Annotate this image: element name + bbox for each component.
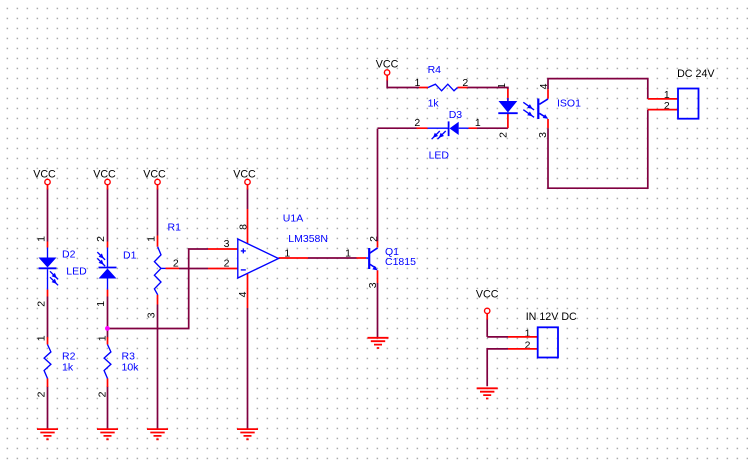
svg-text:D3: D3	[449, 109, 463, 121]
svg-text:1: 1	[36, 335, 48, 341]
svg-text:R1: R1	[168, 221, 182, 233]
svg-text:D1: D1	[123, 250, 137, 262]
svg-text:3: 3	[146, 312, 158, 318]
svg-text:2: 2	[95, 236, 107, 242]
svg-text:VCC: VCC	[143, 169, 166, 181]
svg-text:1: 1	[475, 117, 481, 129]
svg-text:2: 2	[36, 301, 48, 307]
svg-text:1: 1	[36, 236, 48, 242]
svg-text:LED: LED	[66, 266, 87, 278]
svg-text:1k: 1k	[428, 97, 440, 109]
svg-text:2: 2	[498, 132, 510, 138]
svg-text:LED: LED	[429, 150, 450, 162]
svg-text:VCC: VCC	[233, 169, 256, 181]
svg-text:2: 2	[36, 391, 48, 397]
svg-text:R4: R4	[428, 64, 442, 76]
svg-text:C1815: C1815	[385, 256, 416, 268]
svg-text:VCC: VCC	[376, 59, 399, 71]
svg-text:10k: 10k	[122, 361, 140, 373]
svg-text:IN 12V DC: IN 12V DC	[526, 311, 577, 323]
svg-text:VCC: VCC	[93, 169, 116, 181]
svg-text:DC 24V: DC 24V	[677, 68, 715, 80]
svg-text:LM358N: LM358N	[288, 233, 328, 245]
svg-text:1: 1	[95, 301, 107, 307]
svg-text:U1A: U1A	[283, 213, 303, 225]
svg-text:D2: D2	[62, 249, 76, 261]
svg-text:ISO1: ISO1	[557, 98, 581, 110]
svg-text:3: 3	[224, 238, 230, 250]
svg-text:2: 2	[414, 117, 420, 129]
svg-text:VCC: VCC	[476, 289, 499, 301]
svg-text:1k: 1k	[62, 361, 74, 373]
svg-text:VCC: VCC	[33, 169, 56, 181]
svg-text:1: 1	[146, 236, 158, 242]
